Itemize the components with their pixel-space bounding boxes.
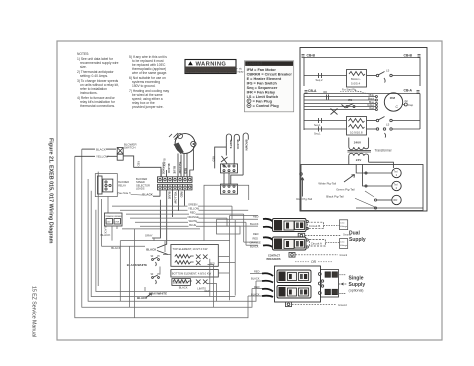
svg-text:RED: RED [253, 215, 259, 219]
svg-text:24V: 24V [356, 158, 362, 162]
svg-text:Green Pig-Tail: Green Pig-Tail [336, 188, 355, 192]
svg-text:CB-B: CB-B [307, 54, 316, 58]
svg-text:BLACK: BLACK [236, 140, 240, 150]
svg-text:IFR: IFR [323, 91, 327, 94]
svg-text:provided jumper wire.: provided jumper wire. [132, 105, 164, 109]
svg-text:White Pig-Tail: White Pig-Tail [318, 182, 336, 186]
svg-text:RED: RED [253, 237, 259, 241]
svg-text:YELLOW: YELLOW [174, 192, 178, 204]
svg-text:ing unit. Failure to do so may: ing unit. Failure to do so may cause per… [187, 71, 244, 74]
svg-text:WHITE: WHITE [189, 219, 198, 223]
svg-text:Ground: Ground [338, 303, 347, 307]
svg-text:(optional): (optional) [349, 289, 364, 293]
svg-text:BREAKERS: BREAKERS [267, 258, 281, 261]
svg-text:Supply: Supply [349, 237, 366, 243]
svg-text:RED: RED [253, 232, 259, 236]
svg-text:RED: RED [184, 168, 188, 174]
svg-text:5.0/5.4: 5.0/5.4 [351, 82, 361, 86]
svg-text:= Fan Plug: = Fan Plug [253, 99, 273, 103]
svg-text:Voltage: Voltage [340, 225, 348, 228]
svg-text:Bottom -: Bottom - [351, 77, 361, 81]
svg-text:BLACK: BLACK [146, 247, 157, 251]
svg-text:BLACK: BLACK [179, 286, 188, 290]
svg-text:BLACK: BLACK [251, 277, 260, 281]
svg-text:YELLOW: YELLOW [188, 207, 199, 211]
svg-text:CB-A: CB-A [308, 89, 317, 93]
svg-text:BLACK: BLACK [167, 164, 171, 174]
svg-text:Circuit B: Circuit B [309, 224, 320, 228]
svg-text:BLACK: BLACK [137, 296, 148, 300]
svg-text:Seq.2: Seq.2 [316, 78, 324, 82]
svg-text:Ground: Ground [340, 254, 348, 257]
svg-text:RED: RED [137, 161, 141, 167]
svg-text:RED: RED [190, 211, 196, 215]
svg-text:Seq.1: Seq.1 [314, 133, 321, 136]
svg-text:For Start Plg: For Start Plg [342, 89, 357, 92]
svg-text:LINE: LINE [114, 222, 119, 224]
svg-text:BOTTOM ELEMENT, 4.8/3.0 KW: BOTTOM ELEMENT, 4.8/3.0 KW [172, 271, 212, 275]
svg-text:LEADS: LEADS [136, 187, 145, 191]
svg-text:24V: 24V [107, 222, 111, 224]
svg-text:IFM = Fan Motor: IFM = Fan Motor [247, 68, 277, 72]
svg-text:ORANGE: ORANGE [188, 215, 200, 219]
svg-text:RED: RED [205, 290, 210, 293]
svg-text:IFS = Fan Switch: IFS = Fan Switch [247, 81, 278, 85]
svg-text:Seq = Sequencer: Seq = Sequencer [247, 86, 278, 90]
svg-text:RED: RED [180, 192, 184, 198]
svg-text:Dual: Dual [349, 231, 360, 237]
svg-text:WARNING: WARNING [196, 61, 227, 67]
svg-text:Transformer: Transformer [375, 149, 393, 153]
svg-text:ELEMENTS: ELEMENTS [173, 280, 187, 284]
svg-text:15 EZ Service Manual: 15 EZ Service Manual [31, 286, 37, 337]
svg-text:BLK: BLK [176, 146, 179, 151]
svg-text:Circuit A: Circuit A [311, 241, 322, 245]
svg-text:YELLOW: YELLOW [96, 155, 109, 159]
svg-text:WHITE: WHITE [229, 140, 233, 149]
svg-text:BLACK: BLACK [104, 226, 107, 235]
svg-text:RELAY: RELAY [118, 185, 126, 188]
svg-text:BLACK/WHITE: BLACK/WHITE [127, 263, 147, 267]
svg-text:BLACK: BLACK [250, 222, 259, 226]
svg-text:HI: HI [157, 255, 160, 258]
svg-text:RED: RED [254, 270, 260, 274]
svg-text:BLACK: BLACK [163, 159, 166, 168]
svg-text:thermostat connections.: thermostat connections. [80, 104, 115, 108]
svg-text:Seq.1: Seq.1 [314, 124, 321, 127]
svg-text:IFR = Fan Relay: IFR = Fan Relay [247, 90, 276, 94]
svg-text:(E): (E) [405, 99, 409, 103]
svg-text:IFS: IFS [348, 98, 352, 102]
svg-text:= Control Plug: = Control Plug [253, 104, 280, 108]
svg-text:TOP ELEMENT, 10.9/7.0 KW: TOP ELEMENT, 10.9/7.0 KW [173, 247, 208, 251]
svg-text:BLACK: BLACK [142, 192, 153, 196]
svg-text:CB-B: CB-B [404, 53, 413, 57]
svg-text:NOTES:: NOTES: [77, 52, 89, 56]
svg-text:RED: RED [211, 156, 214, 161]
svg-text:CBRKR = Circuit Breaker: CBRKR = Circuit Breaker [247, 72, 293, 76]
svg-text:Voltage: Voltage [340, 244, 348, 247]
svg-text:BLACK: BLACK [96, 148, 106, 152]
svg-text:IFR: IFR [393, 198, 397, 202]
svg-text:10.9/10.8: 10.9/10.8 [350, 131, 363, 135]
svg-text:Y: Y [248, 99, 250, 103]
svg-text:ORANGE: ORANGE [250, 241, 262, 245]
svg-text:E = Heater Element: E = Heater Element [247, 77, 282, 81]
svg-text:setting: 0.40 Amps.: setting: 0.40 Amps. [80, 74, 108, 78]
svg-text:Black Pig-Tail: Black Pig-Tail [326, 194, 344, 198]
svg-text:Single: Single [349, 276, 364, 282]
svg-text:Figure 21. EXEB 015, 017 Wirin: Figure 21. EXEB 015, 017 Wiring Diagram [48, 138, 54, 244]
svg-text:BROWN: BROWN [245, 140, 249, 151]
svg-text:BLUE: BLUE [168, 192, 172, 200]
svg-text:YELLOW: YELLOW [178, 162, 182, 174]
svg-text:IFM: IFM [390, 96, 396, 100]
svg-text:LS = Limit Switch: LS = Limit Switch [247, 95, 279, 99]
svg-text:L5: L5 [386, 69, 390, 73]
svg-text:size.: size. [80, 65, 87, 69]
svg-text:BLUE: BLUE [173, 166, 177, 174]
svg-text:instructions.: instructions. [80, 91, 98, 95]
svg-text:GREEN: GREEN [188, 203, 197, 207]
svg-text:wire of the same gauge.: wire of the same gauge. [132, 71, 167, 75]
svg-text:Supply: Supply [349, 282, 366, 288]
svg-text:Red Pig-Tail: Red Pig-Tail [296, 197, 312, 201]
svg-text:Red: Red [369, 107, 374, 110]
svg-text:240V: 240V [354, 140, 362, 144]
svg-text:150V to ground.: 150V to ground. [132, 84, 156, 88]
svg-text:RED: RED [210, 263, 215, 266]
svg-text:Cap: Cap [408, 103, 414, 107]
svg-text:(See Note 7): (See Note 7) [118, 192, 132, 195]
svg-text:Gray: Gray [369, 94, 375, 97]
svg-text:L5: L5 [386, 122, 390, 126]
svg-text:GRAY: GRAY [145, 234, 153, 238]
svg-text:Legend: Legend [247, 61, 263, 66]
svg-text:SWITCH: SWITCH [124, 146, 135, 150]
svg-text:BLUE: BLUE [189, 223, 196, 227]
svg-text:OR: OR [311, 260, 317, 264]
svg-text:CB-A: CB-A [404, 89, 413, 93]
svg-text:TRANSFORMER: TRANSFORMER [105, 215, 122, 218]
